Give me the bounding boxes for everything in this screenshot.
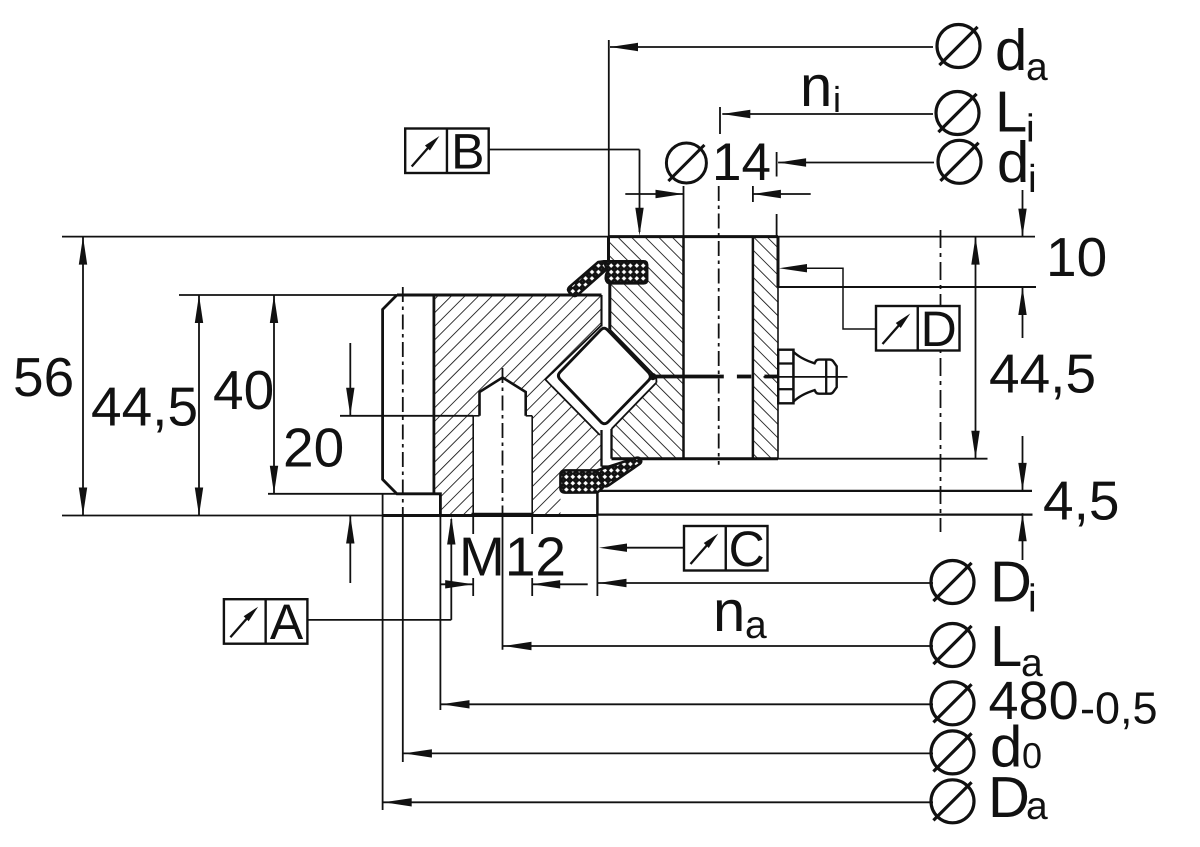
svg-text:D: D <box>990 550 1032 615</box>
inner ring left face (above seal groove) <box>607 237 610 261</box>
crossed roller (diamond section) <box>558 328 650 424</box>
dimension 44,5 right (inner ring height) <box>975 237 977 459</box>
inner ring hatched section (right of bolt hole) <box>753 237 778 459</box>
svg-text:44,5: 44,5 <box>91 376 198 438</box>
inner ring hatched section (left of bolt hole) <box>609 237 684 459</box>
dimension line bolt circle La with na count <box>503 645 934 647</box>
outer ring raceway relief notch (left corner) <box>545 373 552 387</box>
inner ring lower-left face <box>610 429 612 459</box>
extension line to diameter Da <box>382 494 384 810</box>
svg-text:C: C <box>729 521 765 577</box>
dimension line diameter d0 <box>403 752 933 754</box>
svg-text:L: L <box>990 614 1022 679</box>
svg-text:14: 14 <box>712 133 771 192</box>
dimension line Li with ni count <box>722 113 933 115</box>
bottom lip seal (cross-hatched rubber) <box>560 470 604 492</box>
inner ring top surface + extension line <box>62 236 609 238</box>
raceway lubrication relief at right corner <box>649 373 656 380</box>
dimension Oe14 (bolt hole) <box>666 143 706 183</box>
dimension line diameter Da <box>383 801 933 803</box>
svg-text:B: B <box>451 123 484 179</box>
dimension 56 (overall height) <box>82 237 84 516</box>
extension line for diameter da <box>608 40 610 237</box>
outer ring raceway line (lower-left) <box>552 387 599 435</box>
dimension 44,5 (outer ring height) <box>198 295 200 516</box>
inner ring raceway clearance line (lower-right) <box>612 383 657 430</box>
M12 threaded hole: thread lines <box>472 416 474 516</box>
outer ring seal groove wall <box>600 295 602 327</box>
svg-text:A: A <box>270 594 304 650</box>
svg-text:d: d <box>997 130 1029 195</box>
svg-text:M12: M12 <box>459 526 566 588</box>
datum B leader and arrow <box>489 149 640 151</box>
lower seal groove wall <box>600 430 602 467</box>
extension line to diameter d0 <box>402 520 404 762</box>
outer ring flange boundary (unsectioned zone) <box>432 295 435 494</box>
bolt hole Oe14 right wall <box>752 237 755 459</box>
svg-text:i: i <box>1028 158 1037 201</box>
dimension line diameter di <box>778 162 934 164</box>
svg-text:44,5: 44,5 <box>989 343 1096 405</box>
svg-text:4,5: 4,5 <box>1043 470 1119 532</box>
seal counterface plate left edge <box>596 491 599 515</box>
outer ring raceway clearance line (upper-left) <box>552 326 601 374</box>
bottom mounting face + extension line <box>62 515 383 517</box>
datum D leader and arrow <box>801 268 876 329</box>
grease nipple hex base <box>778 350 793 404</box>
lower seal groove top edge <box>602 465 620 467</box>
dimension line diameter Di <box>597 582 933 584</box>
M12 thread root at mouth <box>472 513 534 517</box>
bolt hole Oe14 centerline <box>718 186 720 465</box>
outer ring top surface + extension line <box>179 294 397 296</box>
svg-text:D: D <box>988 765 1030 830</box>
grease nipple axis centerline <box>764 376 848 378</box>
reference line for 40 <box>268 493 397 495</box>
M12 hole centerline <box>502 368 504 520</box>
svg-text:d: d <box>995 18 1027 83</box>
svg-text:10: 10 <box>1046 226 1107 288</box>
svg-text:a: a <box>1026 46 1048 89</box>
dimension 10 (recess depth) <box>1022 190 1024 237</box>
dimension line diameter 480-0,5 (spigot) <box>440 703 933 705</box>
extension line to diameter 480 <box>439 516 441 711</box>
datum flag A <box>224 599 308 644</box>
inner ring raceway relief (right corner) <box>655 377 657 382</box>
svg-text:a: a <box>745 604 767 647</box>
svg-text:n: n <box>800 54 832 119</box>
svg-text:20: 20 <box>283 417 344 479</box>
seal counterface plate bottom <box>597 513 1032 515</box>
datum flag D <box>876 306 960 351</box>
svg-text:D: D <box>921 301 957 357</box>
svg-text:-0,5: -0,5 <box>1080 683 1158 734</box>
reference line for 20 (thread depth) <box>340 415 473 417</box>
bolt hole Oe14 left wall <box>682 237 685 459</box>
bore recess step face (depth 10) <box>778 286 1036 288</box>
grease duct from nipple to raceway <box>654 375 724 379</box>
svg-text:40: 40 <box>213 359 274 421</box>
M12 drilled pilot hole with point <box>480 378 526 416</box>
dimension line diameter da <box>610 46 933 48</box>
datum A leader and arrow <box>307 619 451 621</box>
dimension 20 (thread depth) <box>349 343 351 416</box>
extension line to bolt circle La <box>502 520 504 650</box>
svg-text:i: i <box>833 79 841 120</box>
M12 dimension line with outside arrows <box>440 583 473 585</box>
inner ring bore below recess <box>777 287 779 459</box>
outer ring flange hole centerline d0 <box>402 287 404 520</box>
datum flag B <box>405 129 489 174</box>
seal counterface plate top <box>597 490 1033 492</box>
svg-text:n: n <box>713 579 745 644</box>
grease nipple body and ball head <box>794 352 837 402</box>
grease nipple head flat line <box>825 360 827 394</box>
svg-text:i: i <box>1028 578 1037 621</box>
svg-text:a: a <box>1026 785 1048 828</box>
outer ring hatched section <box>434 295 602 516</box>
svg-text:56: 56 <box>13 346 74 408</box>
centerline at measuring circle <box>940 230 942 532</box>
dimension 4,5 (plate thickness) <box>1022 436 1024 491</box>
datum flag C <box>684 526 768 571</box>
datum C leader and arrow <box>622 547 684 549</box>
extension line at plate inner edge Di <box>596 493 598 596</box>
inner ring left face (below seal groove) <box>608 283 611 329</box>
inner ring bottom face <box>612 457 779 460</box>
inner ring raceway line (upper-right) <box>610 330 656 378</box>
top lip seal (cross-hatched rubber) <box>604 261 647 283</box>
outer ring flange (tab) outline with chamfers <box>383 295 441 516</box>
inner ring bore face (recess d_i) <box>777 237 780 287</box>
dimension 40 <box>273 295 275 494</box>
